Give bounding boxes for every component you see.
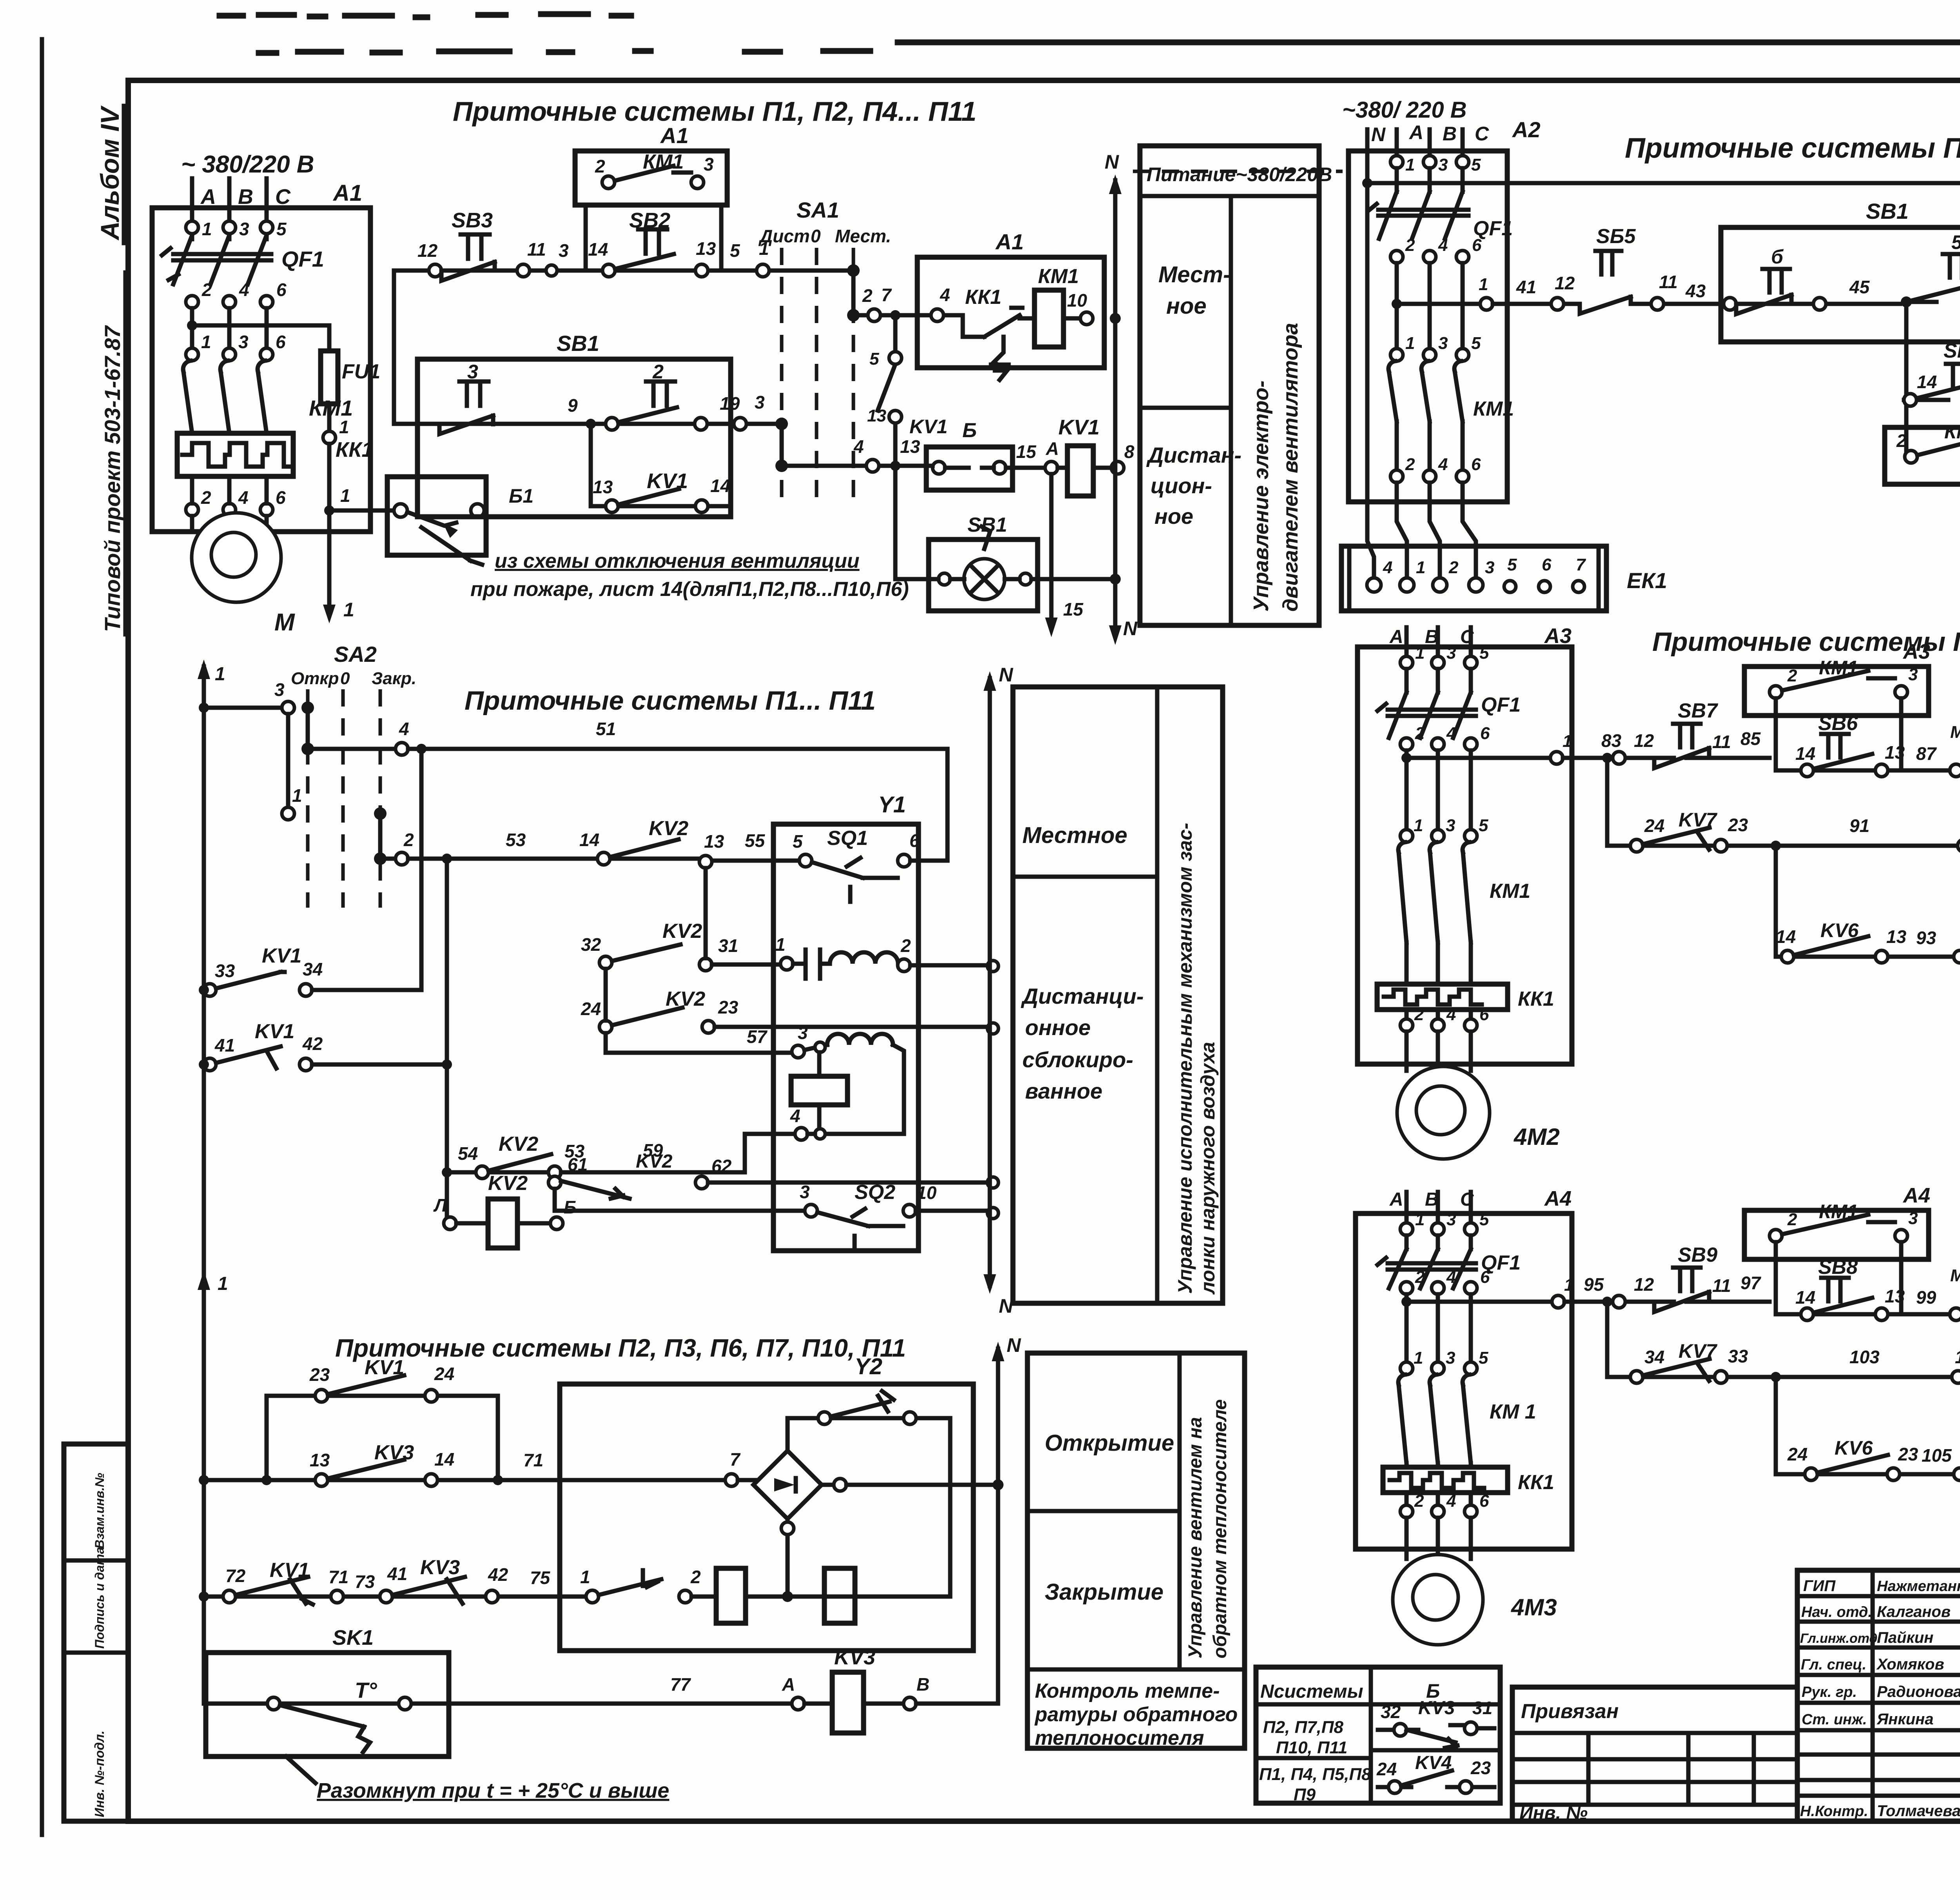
SA2 contact column	[199, 679, 302, 820]
svg-text:Б: Б	[962, 419, 977, 442]
svg-text:85: 85	[1740, 728, 1761, 749]
svg-text:А: А	[1045, 438, 1059, 459]
svg-text:2: 2	[403, 830, 414, 850]
KV6 contact row (A4)	[1771, 1372, 1960, 1480]
terminals 1 3 5	[1400, 643, 1489, 669]
svg-text:14: 14	[1776, 926, 1796, 947]
legend box 1: vent motor control	[1140, 146, 1332, 625]
svg-text:QF1: QF1	[281, 247, 324, 271]
svg-text:Пайкин: Пайкин	[1877, 1629, 1933, 1646]
phase labels N A B C	[1371, 117, 1541, 145]
svg-text:А: А	[782, 1674, 795, 1695]
svg-text:П10, П11: П10, П11	[1276, 1738, 1347, 1757]
SA2 dots Otkr	[301, 701, 314, 755]
svg-text:Мест.: Мест.	[835, 226, 891, 246]
svg-text:КМ1: КМ1	[1944, 421, 1960, 443]
svg-text:2: 2	[862, 285, 873, 306]
svg-text:Разомкнут при t = + 25°С и выш: Разомкнут при t = + 25°С и выше	[317, 1779, 669, 1802]
svg-text:ванное: ванное	[1025, 1079, 1102, 1103]
signature table	[1873, 1570, 1960, 1821]
svg-text:41: 41	[1516, 277, 1536, 297]
svg-text:31: 31	[1472, 1698, 1492, 1718]
signal lamp SB1	[895, 466, 1115, 611]
svg-text:SA1: SA1	[797, 198, 839, 222]
svg-text:1: 1	[1416, 558, 1425, 577]
svg-text:4М2: 4М2	[1514, 1124, 1560, 1150]
svg-text:5: 5	[276, 219, 287, 239]
svg-text:А3: А3	[1902, 640, 1930, 663]
svg-text:Толмачева: Толмачева	[1877, 1802, 1960, 1820]
svg-text:А: А	[1389, 627, 1403, 647]
svg-text:Н.Контр.: Н.Контр.	[1800, 1803, 1868, 1820]
SA2 dots Zakr	[374, 807, 387, 865]
button SB5	[1595, 225, 1706, 310]
svg-text:КМ 1: КМ 1	[1490, 1400, 1536, 1423]
svg-text:Мест.: Мест.	[1950, 1266, 1960, 1285]
svg-text:23: 23	[1728, 815, 1748, 835]
tap to control net 83	[1401, 732, 1572, 830]
contactor KM1 (A3)	[1398, 842, 1530, 943]
button 3 inside SB1 (stop)	[439, 361, 493, 434]
svg-text:14: 14	[1917, 372, 1937, 392]
aux contact box A4 (KM1 2-3)	[1744, 1184, 1930, 1314]
svg-text:4: 4	[1446, 1005, 1456, 1024]
svg-text:4: 4	[853, 436, 864, 457]
svg-text:5: 5	[1507, 555, 1517, 574]
KV2 contact 54-53	[442, 859, 815, 1179]
heater EK1	[1341, 546, 1667, 611]
selector SA4	[1950, 1235, 1960, 1553]
svg-text:Дистанци-: Дистанци-	[1021, 984, 1144, 1008]
svg-text:24: 24	[1376, 1759, 1397, 1779]
svg-text:2: 2	[1414, 1005, 1424, 1024]
phase labels	[1389, 1187, 1572, 1210]
svg-text:14: 14	[710, 476, 730, 496]
svg-text:1: 1	[1415, 643, 1425, 663]
svg-text:73: 73	[355, 1571, 375, 1592]
svg-text:8: 8	[1124, 441, 1134, 462]
svg-text:7: 7	[1576, 555, 1586, 574]
phase wires	[1406, 1192, 1471, 1223]
svg-text:2: 2	[201, 280, 212, 300]
svg-text:А4: А4	[1544, 1187, 1572, 1210]
svg-text:1: 1	[1414, 816, 1423, 835]
svg-text:В: В	[1443, 123, 1457, 145]
svg-text:42: 42	[302, 1034, 323, 1054]
svg-text:Мест-: Мест-	[1158, 262, 1230, 287]
bottom vertex wire	[781, 1519, 794, 1597]
svg-text:15: 15	[1016, 441, 1037, 462]
svg-text:SQ1: SQ1	[827, 827, 868, 850]
svg-text:Управление электро-: Управление электро-	[1249, 381, 1273, 612]
svg-text:Местное: Местное	[1022, 823, 1127, 848]
svg-text:из схемы отключения вентиляции: из схемы отключения вентиляции	[495, 550, 860, 572]
svg-text:Инв. №: Инв. №	[1519, 1803, 1588, 1824]
svg-text:KV1: KV1	[647, 469, 688, 493]
svg-text:71: 71	[523, 1450, 543, 1470]
aux contact box L2 / KM1	[1885, 401, 1960, 484]
svg-text:10: 10	[916, 1183, 937, 1203]
svg-text:11: 11	[1659, 272, 1678, 292]
svg-text:Подпись и дата: Подпись и дата	[93, 1547, 107, 1649]
svg-text:45: 45	[1849, 277, 1870, 297]
svg-text:1: 1	[1414, 1348, 1423, 1368]
svg-text:42: 42	[488, 1564, 508, 1585]
svg-text:Т°: Т°	[355, 1678, 377, 1702]
svg-text:95: 95	[1584, 1274, 1604, 1295]
svg-text:4: 4	[1446, 724, 1456, 743]
wire 2-7 row (Mest to KM1 coil)	[853, 313, 955, 318]
svg-text:103: 103	[1849, 1347, 1880, 1367]
svg-text:4: 4	[940, 285, 950, 305]
svg-text:2: 2	[1448, 558, 1459, 577]
svg-text:12: 12	[1634, 730, 1654, 751]
KM1 coil	[1020, 265, 1093, 347]
legend box C: damper control	[1013, 687, 1223, 1303]
wire from Dist dot to relay row	[782, 464, 889, 468]
svg-text:1: 1	[1405, 334, 1415, 353]
svg-text:KV3: KV3	[374, 1441, 414, 1464]
svg-text:В: В	[916, 1674, 929, 1695]
svg-text:23: 23	[309, 1364, 330, 1385]
svg-text:2: 2	[1405, 455, 1415, 474]
phase labels A B C	[200, 185, 291, 209]
svg-text:6: 6	[1479, 1005, 1489, 1024]
svg-text:3: 3	[1908, 665, 1918, 684]
button SB8	[1776, 1256, 1960, 1321]
svg-text:6: 6	[1471, 455, 1481, 474]
svg-text:П1, П4, П5,П8: П1, П4, П5,П8	[1259, 1765, 1371, 1784]
svg-text:4: 4	[1438, 236, 1448, 255]
svg-text:4: 4	[1446, 1491, 1456, 1511]
KV1 parallel contact	[586, 419, 731, 517]
svg-text:75: 75	[530, 1568, 551, 1588]
KV2 coil row	[433, 1172, 577, 1248]
aux contacts SB4 branch verticals	[1906, 302, 1960, 400]
svg-text:QF1: QF1	[1481, 694, 1521, 716]
svg-text:5: 5	[730, 240, 740, 261]
phase wires	[1367, 129, 1463, 579]
svg-text:3: 3	[1485, 558, 1494, 577]
SA1 contact dots Dist lower	[775, 418, 788, 472]
legend box D: valve control	[1027, 1353, 1245, 1749]
svg-text:6: 6	[1480, 1268, 1490, 1287]
svg-text:Закрытие: Закрытие	[1045, 1579, 1163, 1605]
binding table	[1512, 1687, 1797, 1824]
svg-text:15: 15	[1063, 599, 1084, 619]
relay in Y1	[791, 1052, 848, 1139]
svg-text:5: 5	[1471, 334, 1481, 353]
svg-text:3: 3	[1446, 816, 1455, 835]
svg-text:23: 23	[1470, 1758, 1491, 1778]
svg-text:3: 3	[1908, 1209, 1918, 1228]
button box SB1 (heater)	[1721, 199, 1960, 342]
left margin vertical text: Типовой проект	[100, 272, 125, 634]
svg-text:SБ5: SБ5	[1596, 225, 1636, 248]
svg-text:2: 2	[1787, 666, 1797, 685]
left margin vertical text: Альбом IV	[95, 105, 124, 243]
svg-text:SB1: SB1	[557, 331, 599, 356]
svg-text:~ 380/220 В: ~ 380/220 В	[181, 151, 314, 178]
svg-text:5: 5	[1479, 1210, 1489, 1229]
svg-text:КМ1: КМ1	[1490, 880, 1530, 903]
svg-text:6: 6	[1480, 724, 1490, 743]
wire node 1 down to pointer arrow	[323, 444, 354, 623]
wire 91 KV7	[1602, 753, 1960, 852]
aux contact box A1 (KM1 2-3)	[575, 123, 727, 271]
svg-text:19: 19	[720, 393, 740, 414]
svg-text:Гл. спец.: Гл. спец.	[1801, 1657, 1866, 1673]
button SB3	[417, 209, 569, 281]
svg-text:1: 1	[343, 599, 354, 621]
svg-text:Приточные системы П1, П2, П4: Приточные системы П1, П2, П4... П11	[453, 96, 976, 127]
svg-text:Янкина: Янкина	[1877, 1711, 1933, 1728]
svg-text:2: 2	[1405, 236, 1415, 255]
terminals 2 4 6	[186, 280, 287, 308]
svg-text:3: 3	[274, 679, 285, 700]
svg-text:ЕК1: ЕК1	[1627, 568, 1667, 593]
limit switch SQ2	[555, 1181, 998, 1250]
KV4 contact in table	[1376, 1753, 1494, 1793]
svg-text:51: 51	[596, 719, 616, 739]
svg-text:3: 3	[238, 332, 249, 352]
thermostat SK1	[204, 1626, 792, 1757]
circuit breaker QF1 (A2)	[1368, 168, 1513, 240]
svg-text:Y1: Y1	[878, 792, 906, 817]
wire 53 row	[380, 817, 799, 868]
thermal contact KK1	[955, 286, 1022, 380]
svg-text:11: 11	[1712, 1275, 1731, 1296]
svg-text:КК1: КК1	[965, 286, 1002, 309]
svg-text:двигателем вентилятора: двигателем вентилятора	[1279, 323, 1302, 612]
KV1 contact 41-42	[199, 1020, 452, 1071]
junction circles row	[429, 264, 769, 277]
svg-text:4: 4	[399, 719, 409, 739]
terminals 1 3 5 lower	[1400, 1348, 1488, 1375]
svg-text:53: 53	[506, 830, 526, 850]
svg-text:А: А	[1389, 1189, 1403, 1210]
svg-text:КК1: КК1	[1518, 988, 1554, 1010]
wire 51	[308, 719, 947, 755]
svg-text:KV1: KV1	[1058, 416, 1100, 439]
svg-text:13: 13	[1886, 926, 1907, 947]
pointer to note	[421, 527, 482, 565]
svg-text:11: 11	[1712, 732, 1731, 752]
svg-text:Типовой проект 503-1-67.87: Типовой проект 503-1-67.87	[100, 325, 125, 632]
svg-text:6: 6	[1479, 1491, 1489, 1511]
contactor KM1 contacts (A2)	[1388, 361, 1514, 421]
svg-text:7: 7	[881, 285, 892, 305]
contactor KM1 (A4)	[1398, 1375, 1536, 1463]
KV3 contact in table	[1378, 1698, 1494, 1748]
svg-text:SQ2: SQ2	[855, 1181, 895, 1204]
svg-text:6: 6	[276, 280, 287, 300]
svg-text:Альбом IV: Альбом IV	[95, 105, 124, 241]
KV1 contact 23-24 upper loop	[261, 1356, 498, 1485]
svg-text:1: 1	[292, 785, 302, 806]
button SB2	[588, 209, 769, 269]
svg-text:Калганов: Калганов	[1877, 1603, 1951, 1620]
svg-text:Ст. инж.: Ст. инж.	[1802, 1711, 1867, 1728]
svg-text:3: 3	[798, 1023, 808, 1043]
svg-text:Б1: Б1	[509, 485, 534, 507]
svg-text:6: 6	[1472, 236, 1482, 255]
svg-text:6: 6	[1542, 555, 1552, 574]
svg-text:SB1: SB1	[1866, 199, 1909, 223]
left margin thin line	[40, 39, 44, 1835]
svg-text:3: 3	[559, 240, 569, 261]
svg-text:Гл.инж.отд.: Гл.инж.отд.	[1800, 1631, 1881, 1646]
svg-text:KV7: KV7	[1679, 1340, 1717, 1362]
terminals 2 4 6 bottom	[1400, 1005, 1489, 1032]
svg-text:Y2: Y2	[855, 1354, 882, 1379]
svg-text:1: 1	[775, 934, 786, 955]
svg-text:N: N	[1105, 151, 1119, 173]
svg-text:3: 3	[239, 219, 249, 239]
svg-text:3: 3	[800, 1182, 810, 1202]
N bus from A2 to right	[1362, 178, 1960, 468]
svg-text:2: 2	[690, 1567, 701, 1587]
svg-text:KV3: KV3	[420, 1556, 460, 1579]
svg-text:105: 105	[1922, 1445, 1952, 1466]
thermal relay KK1 (A4)	[1383, 1463, 1554, 1494]
systems table	[1256, 1667, 1500, 1804]
button SB6	[1776, 712, 1960, 777]
svg-text:SB6: SB6	[1818, 712, 1858, 735]
KV1 vertical contact on Mest branch	[867, 310, 947, 471]
svg-text:62: 62	[711, 1156, 732, 1176]
svg-text:N: N	[1123, 618, 1138, 639]
svg-text:14: 14	[434, 1449, 454, 1470]
wires to motor	[1406, 1518, 1471, 1559]
junction net 1	[323, 605, 336, 623]
svg-text:7: 7	[730, 1449, 741, 1470]
svg-text:1: 1	[215, 664, 225, 685]
svg-text:2: 2	[1415, 1268, 1425, 1287]
svg-text:Питание~380/220В: Питание~380/220В	[1147, 163, 1332, 185]
wire tap to heater control (net 41)	[1392, 263, 1493, 349]
svg-text:24: 24	[1787, 1444, 1808, 1464]
svg-text:Дистан-: Дистан-	[1146, 443, 1241, 467]
heater control row: wire 41	[1493, 297, 1721, 314]
svg-text:1: 1	[1955, 1347, 1960, 1367]
photocopy smudge marks top	[220, 14, 1960, 53]
button SB1 box	[417, 331, 731, 517]
contactor KM1 main contacts	[183, 361, 353, 433]
block B (interlock)	[895, 419, 1037, 490]
terminals 1 3 5	[1390, 155, 1481, 174]
svg-text:КМ1: КМ1	[1473, 398, 1514, 420]
svg-text:1: 1	[339, 417, 349, 437]
SA1 contact dots Mest upper	[847, 264, 860, 322]
svg-text:Приточные системы П1... П11: Приточные системы П1... П11	[1625, 133, 1960, 164]
svg-text:1: 1	[201, 332, 211, 352]
terminals 1 3 5 lower	[1390, 334, 1481, 361]
svg-text:13: 13	[704, 831, 724, 852]
svg-text:5: 5	[1471, 155, 1481, 174]
Y2 internal switch and relays	[580, 1567, 950, 1623]
svg-text:SK1: SK1	[332, 1626, 374, 1649]
svg-text:13: 13	[900, 436, 920, 457]
thermal relay KK1 (A3)	[1377, 943, 1554, 1010]
svg-text:лонки наружного воздуха: лонки наружного воздуха	[1197, 1042, 1219, 1295]
svg-text:10: 10	[1067, 290, 1087, 311]
svg-text:N: N	[1371, 124, 1386, 145]
svg-text:SB2: SB2	[629, 209, 670, 232]
svg-text:KV1: KV1	[270, 1559, 309, 1582]
selector SA5	[1950, 692, 1960, 1006]
svg-text:С: С	[1475, 123, 1489, 145]
svg-text:Нач. отд.: Нач. отд.	[1801, 1604, 1872, 1620]
svg-text:34: 34	[1644, 1347, 1664, 1367]
button 5 (start) in SB1	[1913, 231, 1960, 300]
svg-text:Б: Б	[564, 1197, 577, 1217]
svg-text:5: 5	[1951, 231, 1960, 253]
wires KK1 to motor	[192, 476, 267, 528]
svg-text:сблокиро-: сблокиро-	[1022, 1047, 1133, 1072]
control row 83 - SB7	[1563, 730, 1769, 764]
terminals 1 3 6	[186, 332, 286, 361]
svg-text:онное: онное	[1025, 1015, 1091, 1040]
svg-text:KV2: KV2	[636, 1151, 673, 1172]
bridge rectifier	[753, 1451, 998, 1519]
svg-text:13: 13	[867, 406, 886, 425]
svg-text:2: 2	[1787, 1210, 1797, 1229]
svg-text:1: 1	[202, 219, 212, 239]
svg-text:6: 6	[276, 332, 286, 352]
svg-text:14: 14	[1795, 1287, 1815, 1308]
button SB9	[1654, 1244, 1762, 1312]
svg-text:93: 93	[1916, 928, 1936, 948]
svg-text:1: 1	[1415, 1210, 1425, 1229]
svg-text:Откр: Откр	[291, 669, 339, 688]
note text: fire shutdown	[470, 550, 909, 601]
left margin stamp column	[64, 1444, 128, 1821]
wires between breaker and contactor	[192, 308, 267, 348]
svg-text:2: 2	[652, 361, 664, 383]
phase wires	[1406, 627, 1471, 656]
svg-text:14: 14	[1795, 743, 1815, 764]
svg-text:6: 6	[276, 487, 286, 508]
button SB4	[1904, 340, 1960, 406]
svg-text:34: 34	[303, 959, 323, 979]
svg-text:24: 24	[434, 1364, 454, 1384]
terminals 1 3 5	[186, 219, 287, 239]
svg-text:13: 13	[1885, 742, 1905, 763]
thermal relay KK1 heaters	[177, 433, 373, 476]
svg-text:3: 3	[467, 361, 478, 383]
svg-text:А1: А1	[332, 180, 362, 206]
svg-text:13: 13	[696, 238, 716, 259]
block A3 outline	[1357, 647, 1572, 1064]
block A2 outline	[1348, 151, 1507, 502]
svg-text:ное: ное	[1154, 504, 1193, 529]
svg-text:14: 14	[579, 830, 599, 850]
terminals 2 4 6	[1390, 236, 1482, 263]
svg-text:А3: А3	[1544, 624, 1572, 648]
svg-text:KV1: KV1	[909, 416, 947, 438]
terminals 1 3 5 lower	[1400, 816, 1488, 842]
svg-text:П2, П7,П8: П2, П7,П8	[1263, 1718, 1344, 1737]
svg-text:5: 5	[1479, 1348, 1488, 1368]
wire 71 into diamond	[725, 1449, 757, 1486]
svg-text:32: 32	[1381, 1702, 1401, 1722]
svg-text:б: б	[1771, 246, 1784, 268]
svg-text:13: 13	[1885, 1286, 1905, 1306]
svg-text:KV7: KV7	[1679, 809, 1717, 831]
N line section D	[992, 1334, 1021, 1704]
left loop vertical	[392, 271, 396, 424]
